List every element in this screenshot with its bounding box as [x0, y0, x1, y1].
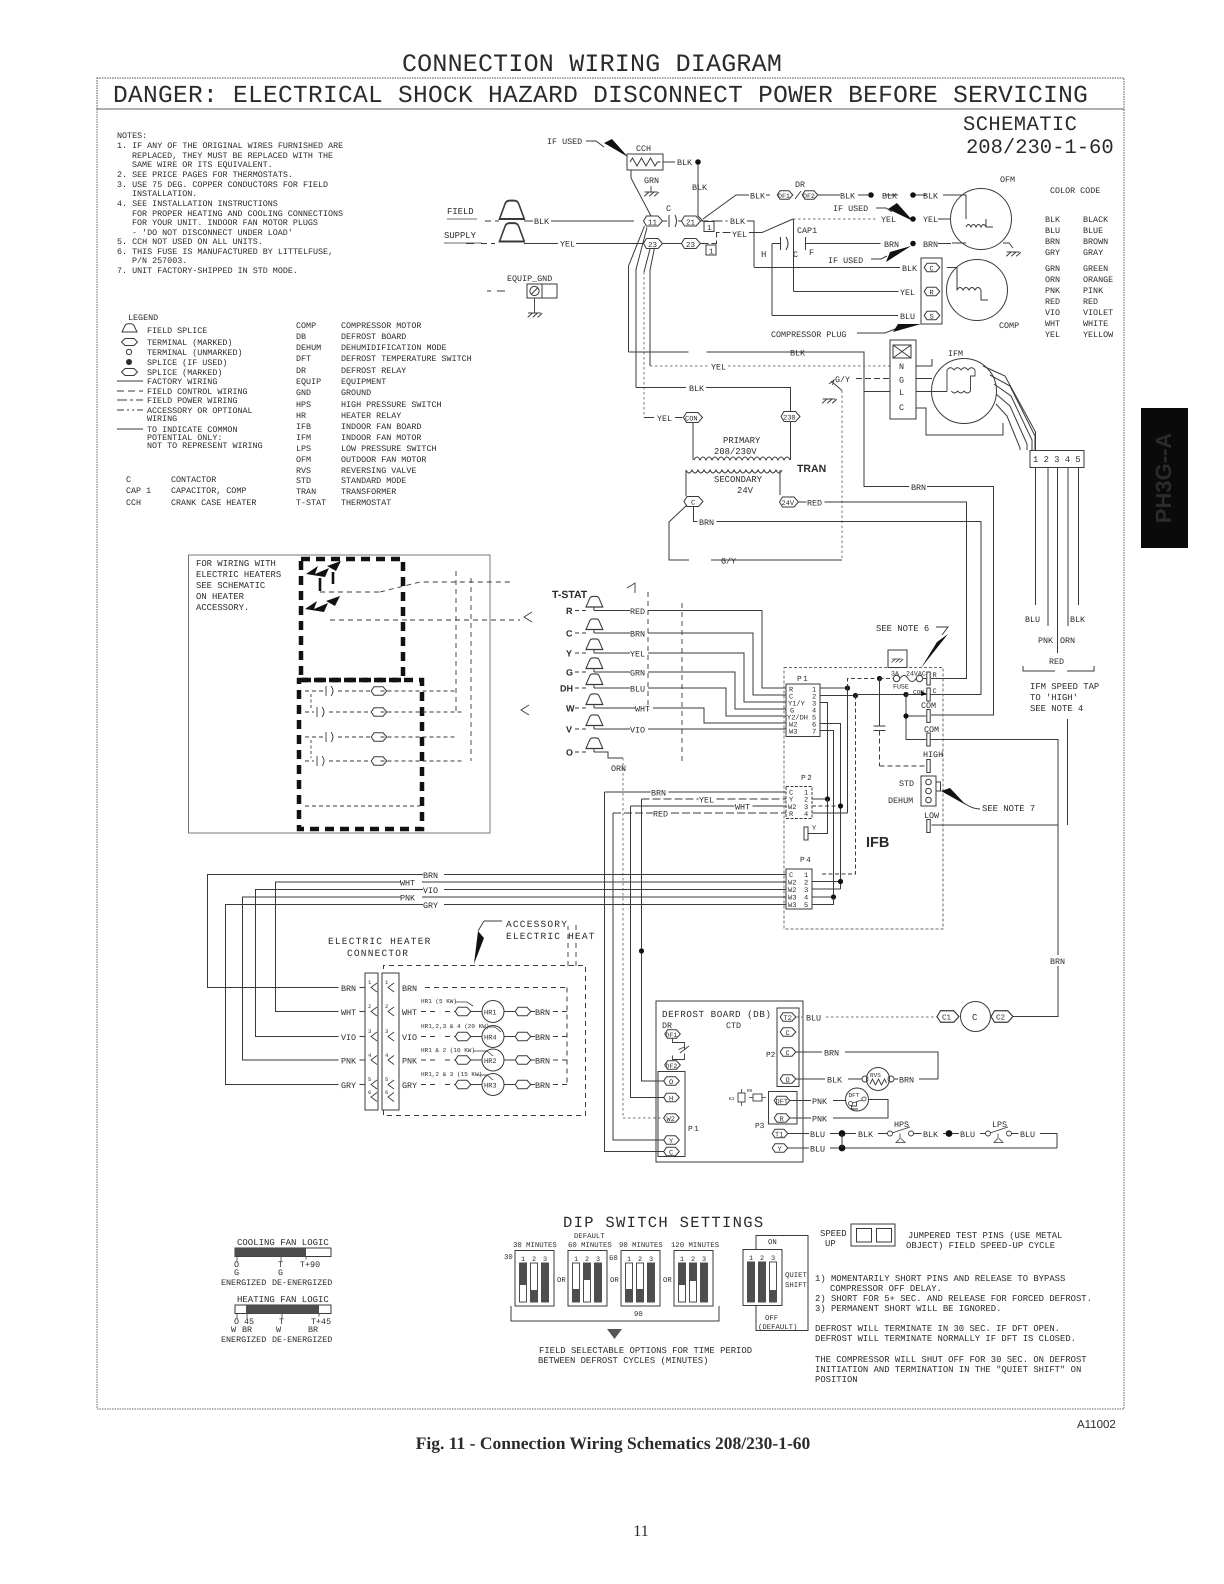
svg-text:T+90: T+90: [300, 1260, 320, 1270]
ground (G/Y): [823, 399, 837, 403]
svg-text:P2: P2: [766, 1051, 776, 1060]
legend block: [126, 313, 263, 508]
svg-text:SHIFT: SHIFT: [785, 1282, 808, 1290]
svg-text:YEL: YEL: [900, 288, 915, 298]
svg-text:SPLICE (IF USED): SPLICE (IF USED): [147, 358, 227, 368]
svg-text:YEL: YEL: [711, 363, 726, 373]
svg-text:ENERGIZED: ENERGIZED: [221, 1278, 266, 1288]
svg-text:Y: Y: [669, 1138, 674, 1146]
IFM terminal strip 1 2 3 4 5: [1030, 451, 1084, 468]
svg-text:W2: W2: [667, 1116, 675, 1124]
svg-text:W3: W3: [789, 729, 797, 737]
svg-text:P/N 257003.: P/N 257003.: [132, 256, 187, 266]
svg-text:TO 'HIGH': TO 'HIGH': [1030, 693, 1078, 703]
svg-text:SEE NOTE 6: SEE NOTE 6: [876, 624, 929, 634]
svg-text:STANDARD MODE: STANDARD MODE: [341, 476, 406, 486]
DR contact DF2: [665, 1061, 681, 1069]
dip box 4: [674, 1251, 713, 1307]
svg-text:C: C: [786, 1030, 790, 1038]
svg-text:C: C: [126, 475, 131, 485]
svg-text:BRN: BRN: [899, 1076, 914, 1086]
ORN dotted vertical: [623, 758, 664, 1118]
svg-text:GRN: GRN: [1045, 264, 1060, 274]
svg-text:Fig. 11 - Connection Wiring S: Fig. 11 - Connection Wiring Schematics 2…: [416, 1433, 811, 1453]
svg-text:DEFROST WILL TERMINATE IN 30 S: DEFROST WILL TERMINATE IN 30 SEC. IF DFT…: [815, 1324, 1060, 1334]
svg-text:11: 11: [633, 1523, 648, 1540]
svg-text:WHT: WHT: [1045, 319, 1060, 329]
svg-text:4: 4: [368, 1052, 372, 1059]
svg-text:COM: COM: [924, 725, 939, 735]
wire RED to P1-1: [594, 611, 786, 689]
svg-text:GROUND: GROUND: [341, 388, 371, 398]
svg-text:CONTACTOR: CONTACTOR: [171, 475, 216, 485]
C2 hexagon: [991, 1011, 1013, 1023]
svg-text:3: 3: [368, 1028, 371, 1035]
svg-text:DANGER: ELECTRICAL SHOCK HAZAR: DANGER: ELECTRICAL SHOCK HAZARD DISCONNE…: [113, 83, 1088, 110]
svg-text:24V: 24V: [782, 500, 795, 508]
wire splice down to contactor: [698, 165, 703, 221]
contactor fan-out diagonals: [629, 226, 655, 272]
field splice (BLK): [500, 201, 525, 219]
svg-text:SCHEMATIC: SCHEMATIC: [963, 114, 1077, 137]
svg-text:C: C: [786, 1050, 790, 1058]
wire BLK contactor to NGLC L: [629, 352, 891, 392]
svg-text:WHT: WHT: [341, 1008, 356, 1018]
svg-text:1: 1: [707, 225, 712, 233]
svg-text:BRN: BRN: [402, 984, 417, 994]
transformer TRAN: [684, 413, 703, 423]
svg-text:EQUIP: EQUIP: [296, 377, 321, 387]
svg-text:BRN: BRN: [341, 984, 356, 994]
svg-text:FIELD SELECTABLE OPTIONS FOR T: FIELD SELECTABLE OPTIONS FOR TIME PERIOD: [539, 1346, 752, 1356]
svg-text:24VAC: 24VAC: [906, 671, 926, 678]
svg-text:PNK: PNK: [402, 1057, 418, 1067]
svg-text:GRY: GRY: [1045, 248, 1060, 258]
svg-text:BRN: BRN: [651, 789, 666, 799]
svg-text:DR: DR: [296, 366, 306, 376]
svg-text:ORN: ORN: [611, 764, 626, 774]
svg-text:HR3: HR3: [484, 1083, 497, 1091]
svg-text:BR: BR: [308, 1325, 318, 1335]
svg-text:CCH: CCH: [126, 498, 141, 508]
svg-text:SPEED: SPEED: [820, 1229, 847, 1239]
svg-text:TERMINAL (UNMARKED): TERMINAL (UNMARKED): [147, 348, 243, 358]
BLK to RVS: [796, 1078, 862, 1080]
wire GRN to P1-4: [594, 672, 786, 709]
svg-text:BRN: BRN: [923, 240, 938, 250]
svg-text:REVERSING VALVE: REVERSING VALVE: [341, 466, 416, 476]
connector labels/pins: [341, 984, 418, 1091]
svg-text:P2: P2: [801, 774, 813, 783]
P1 pin3 wire down: [820, 703, 828, 800]
relay pair connectors: [310, 694, 312, 758]
primary winding: [693, 422, 791, 461]
heater wire PNK run: [243, 897, 787, 1060]
svg-text:BLK: BLK: [1045, 215, 1061, 225]
svg-text:3) PERMANENT SHORT WILL BE IGN: 3) PERMANENT SHORT WILL BE IGNORED.: [815, 1304, 1001, 1314]
wire YEL to P1-3: [594, 653, 786, 702]
svg-text:W: W: [566, 704, 575, 714]
svg-text:208/230-1-60: 208/230-1-60: [966, 137, 1114, 160]
wire CCH left lead down to contactor: [631, 170, 651, 216]
svg-text:TRAN: TRAN: [797, 463, 826, 475]
wire 21 to BLK right: [701, 220, 728, 222]
svg-text:7. UNIT FACTORY-SHIPPED IN STD: 7. UNIT FACTORY-SHIPPED IN STD MODE.: [117, 266, 298, 276]
svg-text:LPS: LPS: [296, 444, 311, 454]
COM2 loop to LOW: [931, 740, 1059, 826]
svg-text:4: 4: [385, 1052, 389, 1059]
svg-text:DEFROST WILL TERMINATE NORMALL: DEFROST WILL TERMINATE NORMALLY IF DFT I…: [815, 1334, 1076, 1344]
svg-text:3: 3: [385, 1028, 388, 1035]
svg-text:DH: DH: [560, 684, 573, 694]
svg-text:R: R: [566, 606, 573, 616]
svg-text:T2: T2: [784, 1015, 792, 1023]
svg-text:C: C: [930, 266, 934, 274]
Y pin cap below P2: [808, 799, 828, 834]
svg-text:24V: 24V: [737, 486, 754, 496]
svg-text:YEL: YEL: [699, 796, 714, 806]
heater wire BRN run: [208, 875, 787, 988]
wire NGLC L to coil: [916, 391, 947, 393]
svg-text:YEL: YEL: [560, 240, 575, 250]
svg-text:INDOOR FAN BOARD: INDOOR FAN BOARD: [341, 422, 421, 432]
wire BRN transformer C to fuse C: [694, 507, 982, 695]
svg-text:DEFROST TEMPERATURE SWITCH: DEFROST TEMPERATURE SWITCH: [341, 354, 472, 364]
BLU from Y pin: [788, 1147, 839, 1149]
svg-text:C: C: [972, 1013, 977, 1023]
svg-text:FUSE: FUSE: [893, 684, 909, 691]
relay contacts box2 row1: [305, 690, 323, 692]
svg-text:F: F: [809, 248, 814, 258]
svg-text:FIELD: FIELD: [447, 207, 474, 217]
DB P2 column: [777, 1008, 799, 1087]
svg-text:SEE NOTE 4: SEE NOTE 4: [1030, 704, 1083, 714]
svg-text:RVS: RVS: [870, 1072, 881, 1079]
svg-text:DEFAULT: DEFAULT: [574, 1233, 605, 1241]
connector contact chevrons: [371, 983, 394, 1102]
loop continues down to C2: [1013, 825, 1058, 1017]
svg-text:FIELD SPLICE: FIELD SPLICE: [147, 326, 207, 336]
bracket + arrow: [511, 1306, 719, 1321]
C node to IFB C pin: [856, 694, 907, 696]
svg-text:COMPRESSOR OFF DELAY.: COMPRESSOR OFF DELAY.: [830, 1284, 942, 1294]
connector left column: [365, 973, 378, 1110]
svg-text:H: H: [669, 1096, 673, 1104]
wire NGLC C loop to IFM bottom: [916, 408, 1003, 435]
BRN from P2-C: [796, 1052, 938, 1079]
C pin: [927, 688, 930, 701]
svg-text:90: 90: [634, 1311, 643, 1319]
svg-text:BRN: BRN: [423, 871, 438, 881]
svg-text:INDOOR FAN MOTOR: INDOOR FAN MOTOR: [341, 433, 421, 443]
svg-text:COMP: COMP: [296, 321, 316, 331]
svg-text:PNK: PNK: [341, 1057, 357, 1067]
svg-text:BLU: BLU: [810, 1130, 825, 1140]
wire CAP1 YEL feed down to comp R: [793, 219, 795, 292]
svg-text:BRN: BRN: [1045, 237, 1060, 247]
svg-text:BLK: BLK: [750, 192, 766, 202]
svg-text:C: C: [666, 204, 671, 214]
BLU T1 junction vertical: [841, 1134, 843, 1149]
svg-text:OR: OR: [557, 1277, 566, 1285]
svg-text:BLK: BLK: [840, 192, 856, 202]
svg-text:BLU: BLU: [1025, 615, 1040, 625]
svg-text:BROWN: BROWN: [1083, 237, 1108, 247]
svg-text:GRN: GRN: [644, 176, 659, 186]
accessory dashed box: [384, 966, 586, 1116]
svg-text:YEL: YEL: [881, 215, 896, 225]
svg-text:DEHUM: DEHUM: [296, 343, 321, 353]
svg-text:ELECTRIC HEATER: ELECTRIC HEATER: [328, 936, 432, 947]
svg-text:NOTES:: NOTES:: [117, 131, 147, 141]
svg-text:RED: RED: [1045, 297, 1060, 307]
svg-text:INITIATION AND TERMINATION IN: INITIATION AND TERMINATION IN THE "QUIET…: [815, 1365, 1081, 1375]
svg-text:BLK: BLK: [923, 1130, 939, 1140]
svg-text:CAP 1: CAP 1: [126, 486, 151, 496]
svg-text:O: O: [566, 748, 573, 758]
svg-text:OFF: OFF: [765, 1315, 778, 1323]
COMP motor circle: [947, 260, 1008, 321]
svg-text:K1: K1: [729, 1097, 735, 1102]
arrow to CCH: [604, 139, 628, 157]
svg-text:VIO: VIO: [1045, 308, 1060, 318]
svg-text:PH3G--A: PH3G--A: [1151, 433, 1176, 524]
P1 pin6 wire down: [820, 724, 841, 890]
svg-text:DIP SWITCH SETTINGS: DIP SWITCH SETTINGS: [563, 1214, 764, 1232]
svg-text:FIELD POWER WIRING: FIELD POWER WIRING: [147, 396, 237, 406]
svg-text:EQUIPMENT: EQUIPMENT: [341, 377, 386, 387]
wire BLU to P1-5: [594, 688, 786, 716]
BLU from T1: [788, 1133, 839, 1135]
svg-text:Y: Y: [566, 649, 572, 659]
DFT switch: [846, 1088, 869, 1111]
PNK to DFT: [790, 1100, 846, 1102]
svg-text:ENERGIZED: ENERGIZED: [221, 1335, 266, 1345]
bracket: [1023, 666, 1094, 671]
svg-text:OFM: OFM: [1000, 175, 1015, 185]
svg-text:HR1,2 & 3 (15 KW): HR1,2 & 3 (15 KW): [421, 1071, 482, 1078]
outer border: [97, 109, 1124, 1409]
wire VIO to P1-7: [594, 729, 786, 730]
svg-text:COOLING FAN LOGIC: COOLING FAN LOGIC: [237, 1238, 329, 1248]
svg-text:ELECTRIC HEATERS: ELECTRIC HEATERS: [196, 570, 281, 580]
svg-text:WHT: WHT: [400, 879, 415, 889]
wire G/Y transformer C to ground bus: [669, 505, 842, 560]
C node dashed down to P4-1: [820, 696, 856, 875]
wire to DR row: [703, 195, 741, 219]
svg-text:EQUIP_GND: EQUIP_GND: [507, 274, 552, 284]
wire NGLC G to IFM: [916, 378, 932, 380]
svg-text:YEL: YEL: [630, 650, 645, 660]
wire BLU to comp plug S: [772, 315, 898, 317]
wire YEL bus to P2-Y: [642, 798, 787, 800]
svg-text:STD: STD: [296, 476, 311, 486]
svg-text:L: L: [899, 388, 904, 398]
svg-text:DF2: DF2: [803, 193, 815, 200]
svg-text:R6: R6: [747, 1088, 753, 1094]
wire CCH right to splice: [663, 161, 675, 163]
NGLC connector: [890, 340, 916, 419]
svg-text:W3: W3: [788, 902, 796, 910]
svg-text:NOT TO REPRESENT WIRING: NOT TO REPRESENT WIRING: [147, 441, 263, 451]
heater BRN bus: [425, 988, 567, 1085]
svg-text:C: C: [566, 629, 573, 639]
svg-text:4: 4: [804, 811, 808, 819]
P4 pin5 wire: [812, 897, 834, 905]
svg-text:POSITION: POSITION: [815, 1375, 858, 1385]
dashed bottom stub: [305, 805, 420, 807]
wire BRN NGLC-C to IFB COM: [864, 392, 994, 716]
transformer 24V terminal: [780, 497, 799, 507]
svg-text:DE-ENERGIZED: DE-ENERGIZED: [272, 1278, 332, 1288]
svg-text:21: 21: [686, 219, 696, 228]
svg-text:90 MINUTES: 90 MINUTES: [619, 1242, 663, 1250]
SEE NOTE 7: [941, 788, 966, 805]
svg-text:GRY: GRY: [402, 1081, 417, 1091]
IFM coil block: [947, 368, 975, 393]
svg-text:RED: RED: [1083, 297, 1098, 307]
svg-text:CRANK CASE HEATER: CRANK CASE HEATER: [171, 498, 256, 508]
DR contact DF1: [665, 1030, 681, 1038]
wire WHT to P1-6: [594, 708, 786, 723]
wire YEL to comp plug R: [794, 291, 899, 293]
wire BRN bus to P2-C: [605, 791, 787, 793]
wire BRN to P1-2: [594, 633, 786, 695]
svg-text:SECONDARY: SECONDARY: [714, 475, 763, 485]
svg-text:WHITE: WHITE: [1083, 319, 1108, 329]
R pin: [927, 672, 930, 685]
svg-text:HEATING FAN LOGIC: HEATING FAN LOGIC: [237, 1295, 329, 1305]
svg-text:C: C: [669, 1150, 673, 1158]
svg-text:DFT: DFT: [296, 354, 311, 364]
svg-text:4. SEE INSTALLATION INSTRUCTIO: 4. SEE INSTALLATION INSTRUCTIONS: [117, 199, 278, 209]
svg-text:HR4: HR4: [484, 1035, 497, 1043]
svg-text:HIGH: HIGH: [923, 750, 943, 760]
dip box 5: [743, 1250, 782, 1306]
svg-text:INSTALLATION.: INSTALLATION.: [132, 189, 197, 199]
wire YEL dashed to OFM: [793, 218, 878, 220]
svg-text:HIGH PRESSURE SWITCH: HIGH PRESSURE SWITCH: [341, 400, 442, 410]
svg-text:CCH: CCH: [636, 144, 651, 154]
ground below CCH: [645, 192, 659, 196]
svg-text:30 MINUTES: 30 MINUTES: [513, 1242, 557, 1250]
svg-text:23: 23: [648, 241, 658, 250]
P4 pin3 wire: [812, 888, 841, 890]
svg-text:BRN: BRN: [630, 630, 645, 640]
svg-text:GRY: GRY: [423, 901, 438, 911]
svg-text:2) SHORT FOR 5+ SEC. AND RELEA: 2) SHORT FOR 5+ SEC. AND RELEASE FOR FOR…: [815, 1294, 1092, 1304]
svg-text:BLU: BLU: [960, 1130, 975, 1140]
svg-text:BLU: BLU: [630, 685, 645, 695]
svg-text:VIO: VIO: [341, 1033, 356, 1043]
vertical bus x650: [649, 270, 651, 366]
svg-text:GRY: GRY: [341, 1081, 356, 1091]
heater wire WHT run: [276, 882, 787, 1012]
svg-text:CONNECTOR: CONNECTOR: [347, 948, 409, 959]
marker square 1: [706, 245, 716, 255]
wire BLK to transformer 230: [636, 388, 791, 412]
svg-text:G: G: [566, 668, 573, 678]
svg-text:BLU: BLU: [1045, 226, 1060, 236]
heater wire VIO run: [256, 890, 787, 1037]
svg-text:23: 23: [686, 241, 696, 250]
RVS reversing valve: [862, 1076, 868, 1082]
svg-text:7: 7: [812, 729, 816, 737]
svg-text:C: C: [899, 403, 904, 413]
svg-text:60 MINUTES: 60 MINUTES: [568, 1242, 612, 1250]
heater note box: [189, 555, 491, 833]
danger banner box: [97, 78, 1124, 109]
svg-text:1: 1: [368, 979, 372, 986]
svg-text:PNK: PNK: [1045, 286, 1061, 296]
svg-text:BLK: BLK: [858, 1130, 874, 1140]
svg-text:SAME WIRE OR ITS EQUIVALENT.: SAME WIRE OR ITS EQUIVALENT.: [132, 160, 273, 170]
IFB board outline: [784, 668, 943, 930]
splice dot: [695, 159, 701, 165]
svg-text:C: C: [933, 688, 937, 696]
svg-text:HR1,2,3 & 4 (20 KW): HR1,2,3 & 4 (20 KW): [421, 1023, 489, 1030]
svg-text:BLUE: BLUE: [1083, 226, 1103, 236]
heater relay arrows box1: [306, 566, 329, 577]
R node to P2-R vertical: [847, 688, 849, 813]
svg-text:COLOR CODE: COLOR CODE: [1050, 186, 1100, 196]
svg-text:DEFROST RELAY: DEFROST RELAY: [341, 366, 406, 376]
svg-text:N: N: [899, 362, 904, 372]
field splice (YEL): [500, 223, 525, 241]
note4 pointer line: [1067, 719, 1069, 825]
svg-text:BLK: BLK: [790, 349, 806, 359]
marker square 1: [704, 222, 714, 232]
svg-text:5: 5: [368, 1076, 371, 1083]
svg-text:ON: ON: [768, 1239, 777, 1247]
svg-text:BRN: BRN: [535, 1008, 550, 1018]
svg-text:GRN: GRN: [630, 669, 645, 679]
contactor coil C: [961, 1002, 991, 1032]
svg-text:HEATER RELAY: HEATER RELAY: [341, 411, 401, 421]
secondary winding: [686, 470, 782, 473]
svg-text:G: G: [899, 376, 904, 386]
svg-text:DB: DB: [296, 332, 306, 342]
abbreviation column: [296, 321, 472, 508]
svg-text:BLK: BLK: [1070, 615, 1086, 625]
svg-text:BLACK: BLACK: [1083, 215, 1109, 225]
P2 pin3 junction: [812, 805, 841, 807]
svg-text:RED: RED: [1049, 657, 1064, 667]
svg-text:IFB: IFB: [296, 422, 311, 432]
svg-text:RVS: RVS: [296, 466, 311, 476]
svg-text:C2: C2: [996, 1014, 1005, 1023]
T1 pin: [772, 1129, 788, 1137]
svg-text:HR1 & 2 (10 KW): HR1 & 2 (10 KW): [421, 1047, 475, 1054]
svg-text:BLU: BLU: [810, 1145, 825, 1155]
svg-text:PINK: PINK: [1083, 286, 1104, 296]
svg-text:BRN: BRN: [824, 1049, 839, 1059]
svg-text:PNK: PNK: [400, 894, 416, 904]
vertical bus x644: [643, 272, 645, 418]
BLU dashed T2 to C1: [796, 1016, 937, 1018]
contactor terminal 23 right: [682, 239, 701, 249]
svg-text:YEL: YEL: [657, 414, 672, 424]
svg-text:JUMPERED TEST PINS (USE METAL: JUMPERED TEST PINS (USE METAL: [908, 1231, 1062, 1241]
svg-text:SUPPLY: SUPPLY: [444, 231, 477, 241]
svg-text:IFM: IFM: [296, 433, 311, 443]
svg-text:3A: 3A: [891, 671, 899, 678]
svg-text:2: 2: [368, 1003, 371, 1010]
svg-text:P1: P1: [797, 675, 809, 684]
tiny resistors: [738, 1093, 745, 1102]
svg-text:P3: P3: [755, 1122, 765, 1131]
relay contacts box2 row2: [305, 711, 314, 713]
